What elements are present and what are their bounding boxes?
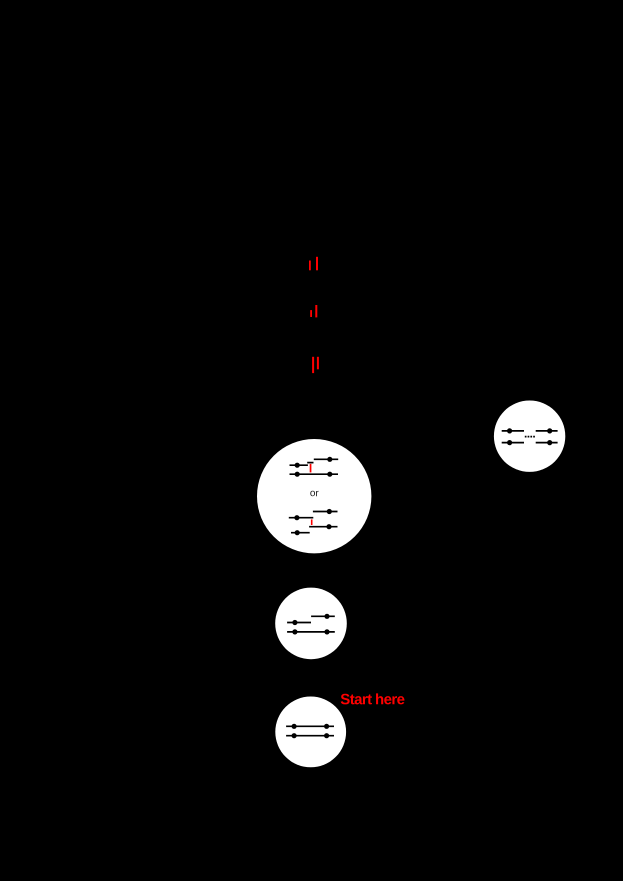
dotted spindle line [525, 436, 535, 438]
cell: bottom starting cell [275, 697, 346, 768]
chromosome: big-cell bottom group, lower-right line [309, 526, 337, 528]
centromere [327, 457, 332, 462]
chromosome: big-cell top group, bottom long line [290, 473, 339, 475]
chromosome: middle cell bottom long line [287, 631, 335, 633]
cell: large daughter cell (metaphase II alternatives) [257, 439, 371, 553]
chromosome: right cell bottom-left [502, 442, 524, 444]
chromosome: big-cell bottom group, lower-left short line [291, 532, 310, 534]
red crossover segment in big-cell bottom group [311, 519, 313, 525]
chromosome: big-cell bottom group, upper-left line [289, 517, 314, 519]
svg-text:or: or [310, 488, 320, 499]
cell: right anaphase cell [494, 401, 565, 472]
chromosome: middle cell top-right line [311, 615, 335, 617]
cell: middle prophase cell (after crossing over) [275, 588, 347, 660]
chromosome: big-cell top group, upper-right chromatid line [290, 457, 339, 477]
chromosome: start cell upper homolog [286, 725, 334, 727]
black tick above red segment [307, 462, 313, 464]
red chromosome segment pair 1 (top) [309, 257, 318, 271]
chromosome: big-cell bottom group, upper-right line [289, 509, 338, 535]
chromosome: right cell top-right [536, 430, 558, 432]
red chromosome segment pair 3 (bottom) [312, 357, 319, 373]
chromosome: middle cell mid-left line [287, 622, 311, 624]
red crossover segment in big-cell top group [310, 464, 312, 473]
chromosome: big-cell top group, left chromatid line [290, 464, 308, 466]
chromosome: right cell top-left [502, 430, 524, 432]
svg-text:Start here: Start here [340, 691, 404, 708]
chromosome: right cell bottom-right [536, 442, 558, 444]
chromosome: start cell lower homolog [286, 735, 334, 737]
red chromosome segment pair 2 (middle) [310, 305, 317, 317]
